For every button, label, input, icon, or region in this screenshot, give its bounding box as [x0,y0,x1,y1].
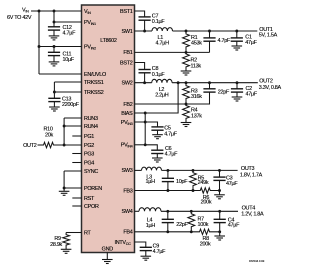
wire RUN4 [64,125,81,127]
capacitor 22pF feedforward ch4 [167,211,169,219]
svg-text:PG2: PG2 [84,143,94,149]
wire SYNC [64,170,81,172]
svg-text:10µF: 10µF [63,57,75,63]
svg-text:1µH: 1µH [146,223,156,229]
junction OUT1 rail C4p7 [208,30,211,33]
junction PVIN2 at x39 [38,45,41,48]
junction PVIN4 [144,143,147,146]
wire PG1 stub [72,135,81,137]
svg-text:200k: 200k [201,200,212,206]
junction on VIN rail at x39 [38,10,41,13]
capacitor C13 2200pF [48,97,60,99]
junction OUT1 rail R1 [185,30,188,33]
capacitor C4 47uF [219,211,221,219]
svg-text:6V TO 42V: 6V TO 42V [7,15,32,21]
svg-text:GND: GND [102,247,114,253]
capacitor C9 4.7uF [140,246,152,248]
junction on VIN rail at x54 [53,10,56,13]
svg-text:BIAS: BIAS [121,111,133,117]
svg-text:DN544 F03: DN544 F03 [249,259,265,263]
junction R8 ground [218,230,221,233]
wire SW1 rail [135,30,153,32]
svg-text:TRKSS2: TRKSS2 [84,90,104,96]
svg-text:316k: 316k [191,94,202,100]
junction FB4 divider [190,230,193,233]
svg-text:200k: 200k [200,241,211,247]
svg-text:OUT2: OUT2 [23,143,37,149]
junction FB1 divider [185,51,188,54]
svg-text:20k: 20k [45,132,53,138]
wire SW4 rail [135,210,140,212]
svg-text:PG4: PG4 [84,160,94,166]
junction R6 ground [218,189,221,192]
svg-text:4.7pF: 4.7pF [218,38,231,44]
junction TRKSS2 [53,91,56,94]
svg-text:0.1µF: 0.1µF [152,72,166,78]
wire VIN down to PVIN2/EN [38,11,40,74]
svg-text:47µF: 47µF [245,40,257,46]
wire PVIN2 rail [39,46,82,48]
svg-text:CPOR: CPOR [84,204,99,210]
svg-text:10pF: 10pF [176,179,188,185]
junction OUT4 rail R7 [190,210,193,213]
wire RUN3 [64,117,81,119]
svg-text:SW2: SW2 [122,81,133,87]
capacitor 22pF feedforward [209,83,211,89]
svg-text:453k: 453k [191,41,202,47]
svg-text:POREN: POREN [84,186,102,192]
wire INTVCC [135,242,146,247]
capacitor C12 4.7uF [48,26,60,28]
capacitor C7 0.1uF [139,16,151,18]
svg-text:113k: 113k [191,63,202,69]
junction BST2 cap to SW2 [143,81,146,84]
capacitor C2 47uF [236,83,238,89]
capacitor C8 0.1uF [139,69,151,71]
junction PVIN3 [144,121,147,124]
svg-text:BST1: BST1 [120,9,133,15]
wire RST stub [72,197,81,199]
resistor R5 249k [190,170,197,190]
svg-text:OUT4: OUT4 [242,206,256,212]
junction OUT3 rail R5 [192,169,195,172]
junction PVIN2 at x54 [53,45,56,48]
wire VIN to PVIN1/C12 [53,11,55,27]
capacitor C5 4.7uF [151,126,163,128]
svg-text:3.3V, 0.8A: 3.3V, 0.8A [259,85,282,91]
inductor L4 1uH [139,208,161,212]
svg-text:OUT3: OUT3 [241,166,255,172]
wire BST2 [135,63,145,70]
capacitor C1 47uF [236,31,238,38]
ground at GND pin [106,253,108,260]
svg-text:FB3: FB3 [123,188,132,194]
svg-text:FB4: FB4 [123,230,132,236]
junction OUT2 rail R3 [185,81,188,84]
svg-text:1.2V, 1.8A: 1.2V, 1.8A [241,212,264,218]
junction RUN4 [63,125,66,128]
svg-text:137k: 137k [191,114,202,120]
svg-text:RUN4: RUN4 [84,124,98,130]
ground at SYNC/POREN [63,188,65,191]
junction OUT2 rail BIAS [177,81,180,84]
junction OUT3 rail 10pF [166,169,169,172]
resistor R2 113k [183,52,190,71]
wire RT [66,232,81,234]
resistor R4 137k [183,104,190,123]
svg-text:VIN: VIN [22,7,29,13]
wire PVIN1 rail [54,21,82,23]
svg-text:BST2: BST2 [120,60,133,66]
junction PG2/R10 [63,144,66,147]
wire OUT2 to R10 [38,144,44,146]
svg-text:100k: 100k [198,222,209,228]
wire FB4 [135,231,192,233]
svg-text:4.7µH: 4.7µH [156,40,170,46]
wire FB1 [135,51,210,53]
svg-text:4.7µF: 4.7µF [164,132,178,138]
svg-text:SYNC: SYNC [84,169,98,175]
svg-text:4.7µF: 4.7µF [63,31,77,37]
svg-text:PG3: PG3 [84,151,94,157]
junction BST1 cap to SW1 [143,30,146,33]
svg-text:47µF: 47µF [228,222,240,228]
wire PVIN3 [135,122,158,127]
wire R10 to PG2 [56,144,82,146]
wire POREN [64,187,81,189]
svg-text:PG1: PG1 [84,134,94,140]
svg-text:TRKSS1: TRKSS1 [84,80,104,86]
inductor L1 4.7uH [152,28,173,31]
resistor R8 200k [191,229,219,234]
svg-text:LT8602: LT8602 [100,38,117,44]
wire TRKSS1 [54,81,81,83]
svg-text:28.9k: 28.9k [50,242,62,248]
junction PVIN1 [53,21,56,24]
wire PVIN4 [135,144,146,146]
junction OUT4 rail C4 [218,210,221,213]
junction FB3 divider [192,189,195,192]
svg-text:SW4: SW4 [122,209,133,215]
inductor L2 2.2uH [152,79,172,82]
wire PG3 stub [72,153,81,155]
svg-text:4.7µF: 4.7µF [165,151,179,157]
svg-text:RT: RT [84,230,92,236]
svg-text:EN/UVLO: EN/UVLO [84,72,106,78]
svg-text:PVIN4: PVIN4 [121,143,133,149]
capacitor C6 4.7uF [151,149,163,151]
ground at R6/C3 [219,191,221,195]
junction OUT3 rail C3 [218,169,221,172]
svg-text:0.1µF: 0.1µF [152,19,166,25]
junction OUT4 rail 22pF [166,210,169,213]
svg-text:47µF: 47µF [226,181,238,187]
wire CPOR stub [72,205,81,207]
inductor L3 1uH [142,167,162,170]
resistor R9 28.9k [63,233,70,250]
capacitor 10pF feedforward [167,170,169,178]
wire FB2 [135,103,187,105]
svg-text:OUT2: OUT2 [259,78,273,84]
wire SW3 rail [135,169,142,171]
svg-text:SW3: SW3 [122,168,133,174]
junction FB3 10pF [166,189,169,192]
ground at R8/C4 [219,232,221,236]
resistor R7 100k [188,211,195,232]
svg-text:2200pF: 2200pF [62,102,80,108]
svg-text:5V, 1.5A: 5V, 1.5A [259,32,278,38]
junction FB4 22pF [166,230,169,233]
svg-text:47µF: 47µF [246,92,258,98]
wire SW2 rail [135,82,152,84]
op-amp U1 LT8602 regulator IC body [82,5,135,253]
svg-text:1µH: 1µH [146,179,156,185]
wire PG4 stub [72,162,81,164]
wire BST1 [135,11,145,17]
junction SYNC/POREN [63,187,66,190]
svg-text:2.2µH: 2.2µH [155,93,169,99]
wire FB3 [135,190,194,192]
svg-text:FB1: FB1 [123,50,132,56]
capacitor C3 47uF [219,170,221,177]
capacitor C11 10uF [48,51,60,53]
svg-text:SW1: SW1 [122,29,133,35]
svg-text:1.8V, 1.7A: 1.8V, 1.7A [240,172,263,178]
junction FB2 divider [185,103,188,106]
svg-text:22pF: 22pF [218,89,230,95]
junction BIAS vertical [144,112,147,115]
wire EN/UVLO [39,73,82,75]
wire BIAS to OUT2 rail [135,83,179,113]
resistor R1 453k [183,31,190,52]
svg-text:FB2: FB2 [123,102,132,108]
junction OUT2 rail C2 [236,81,239,84]
junction OUT1 rail C1 [235,30,238,33]
resistor R3 316k [183,83,190,104]
svg-text:RUN3: RUN3 [84,116,98,122]
junction OUT2 rail C22p [208,81,211,84]
resistor R10 20k [43,142,56,147]
capacitor 4.7pF feedforward [209,31,211,38]
svg-text:RST: RST [84,196,95,202]
resistor R6 200k [193,188,220,193]
svg-text:4.7µF: 4.7µF [153,249,167,255]
wire TRKSS2 [54,91,81,93]
wire PVIN2 to C11 [53,47,55,53]
wire VIN rail [31,10,82,12]
wire BIAS/PVIN3/PVIN4 tie [144,113,146,145]
svg-text:249k: 249k [198,180,209,186]
